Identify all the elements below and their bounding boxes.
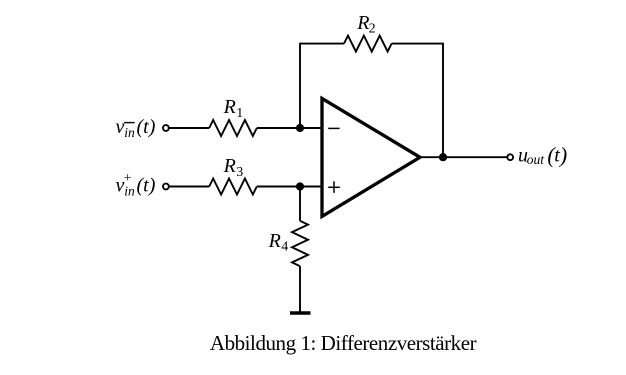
- terminal vin- open circle: [163, 125, 169, 131]
- label R4: [268, 230, 289, 255]
- resistor R1: [209, 120, 257, 136]
- resistor R2: [344, 36, 392, 52]
- resistor R4: [292, 221, 308, 266]
- svg-text:R: R: [223, 155, 236, 177]
- svg-text:Abbildung 1: Differenzverstärk: Abbildung 1: Differenzverstärker: [210, 331, 477, 355]
- label R3: [223, 155, 244, 180]
- terminal vin+ open circle: [163, 184, 169, 190]
- svg-text:in: in: [124, 125, 135, 140]
- wire feedback right vertical: [442, 43, 444, 158]
- svg-text:R: R: [223, 96, 236, 118]
- svg-text:4: 4: [281, 240, 288, 255]
- svg-text:v: v: [116, 116, 125, 138]
- wire inverting input to R1: [169, 127, 209, 129]
- svg-text:3: 3: [236, 165, 243, 180]
- ground: [290, 311, 311, 314]
- svg-text:out: out: [527, 152, 546, 167]
- wire R1 to op-amp inverting pin: [257, 127, 321, 129]
- label vin+(t): [116, 171, 156, 198]
- node junction noninverting input: [296, 182, 304, 190]
- svg-text:(t): (t): [137, 174, 156, 196]
- svg-text:1: 1: [236, 106, 243, 121]
- svg-text:in: in: [124, 183, 135, 198]
- label R2: [356, 12, 375, 36]
- label R1: [223, 96, 244, 121]
- wire feedback top left: [300, 43, 344, 45]
- svg-text:R: R: [268, 230, 281, 252]
- terminal uout open circle: [507, 154, 513, 160]
- label vin-(t): [116, 116, 156, 140]
- op-amp minus sign: [328, 127, 339, 129]
- wire R4 to ground: [299, 266, 301, 313]
- wire noninverting junction down to R4: [299, 187, 301, 221]
- svg-text:2: 2: [369, 21, 376, 36]
- label uout(t): [518, 142, 567, 167]
- wire feedback top right: [392, 43, 443, 45]
- svg-text:(t): (t): [137, 116, 156, 138]
- op-amp U1 triangle: [322, 98, 420, 216]
- wire R3 to op-amp noninverting pin: [257, 186, 321, 188]
- svg-text:): ): [558, 142, 567, 167]
- resistor R3: [209, 179, 257, 195]
- svg-text:R: R: [356, 12, 369, 34]
- node junction output: [439, 153, 447, 161]
- wire feedback left vertical: [299, 43, 301, 128]
- wire noninverting input to R3: [169, 186, 209, 188]
- wire output: [420, 156, 507, 158]
- node junction inverting input: [296, 124, 304, 132]
- op-amp plus sign: [328, 181, 340, 193]
